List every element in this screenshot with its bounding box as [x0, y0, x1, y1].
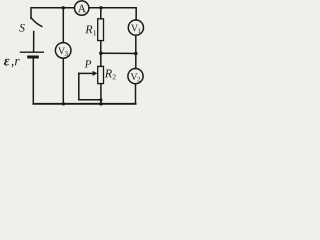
wire V3 top lead — [62, 8, 64, 43]
resistor R1 — [98, 19, 104, 41]
node mid right junction — [134, 52, 138, 56]
wire V1 to V2 — [135, 35, 137, 68]
wire top-left to ammeter — [31, 8, 74, 19]
wire V1 top lead — [135, 12, 137, 20]
wire R2 top lead — [100, 53, 102, 66]
label V3 — [58, 47, 68, 55]
battery ε,r — [21, 52, 44, 104]
rheostat R2 — [98, 66, 104, 83]
wire ammeter to top-right corner — [89, 8, 136, 12]
voltmeter V3 — [55, 43, 71, 59]
node top junction R1 — [99, 6, 102, 9]
node V3 bottom — [62, 102, 65, 105]
wire mid connector to voltmeters — [101, 52, 136, 54]
label epsilon,r (EMF) — [4, 59, 20, 68]
ammeter A — [75, 1, 89, 15]
label R2 — [105, 70, 116, 80]
wire V2 bottom lead — [135, 84, 137, 104]
label A — [78, 5, 86, 13]
wire R1 top lead — [100, 8, 102, 19]
wire R1 bottom lead — [100, 41, 102, 54]
label S — [19, 24, 24, 32]
label P — [85, 60, 92, 67]
node slider return junction — [99, 98, 102, 101]
node top junction V3 — [62, 6, 65, 9]
label V2 — [131, 73, 141, 81]
bottom wire — [33, 103, 135, 105]
slider P arrow — [79, 71, 101, 100]
wire V3 bottom lead — [62, 58, 64, 104]
wire R2 bottom lead — [100, 84, 102, 104]
node R1-R2 junction — [99, 51, 103, 55]
label R1 — [85, 25, 96, 35]
switch S — [31, 18, 42, 52]
voltmeter V2 — [128, 69, 143, 84]
node R2 bottom — [99, 102, 103, 106]
voltmeter V1 — [128, 20, 143, 35]
label V1 — [131, 25, 141, 33]
